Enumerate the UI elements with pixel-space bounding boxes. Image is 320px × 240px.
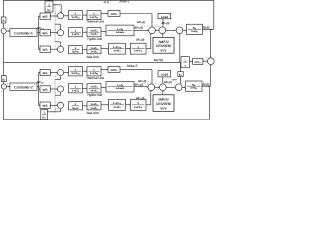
node label dPT2	[138, 79, 146, 83]
wire apf4 to sum	[50, 72, 57, 74]
svg-text:+: +	[55, 46, 56, 48]
svg-text:+: +	[7, 84, 8, 86]
block GRC 1	[108, 10, 120, 16]
block gas fuel 2	[109, 99, 126, 110]
svg-text:ΔPₚ₁(t): ΔPₚ₁(t)	[135, 26, 144, 30]
svg-text:Load: Load	[161, 15, 168, 19]
svg-text:1−sTₚ: 1−sTₚ	[117, 84, 123, 87]
svg-text:apf₁: apf₁	[43, 71, 48, 75]
svg-text:1+sT₁: 1+sT₁	[72, 33, 79, 36]
svg-text:−: −	[166, 26, 167, 28]
block hydro droop compensation 2	[87, 84, 101, 93]
svg-text:1−sT₋ₔ: 1−sT₋ₔ	[113, 46, 121, 49]
wire gas 3-4 b	[126, 104, 131, 106]
svg-text:CES/RFB/: CES/RFB/	[156, 44, 171, 48]
svg-text:1+sTₚ₂: 1+sTₚ₂	[190, 87, 197, 90]
block power system 2	[186, 81, 203, 91]
wire a12 to sum3b	[180, 77, 182, 84]
svg-text:1+sTₓ: 1+sTₓ	[91, 47, 98, 50]
svg-text:Δf₁(t): Δf₁(t)	[104, 1, 110, 4]
summing junction governor hydro 2	[55, 86, 64, 97]
node label df1	[203, 25, 210, 29]
wire df2 to tie circle	[210, 65, 212, 87]
block 2piT12	[193, 58, 203, 64]
wire hydro to penstock 2	[101, 87, 106, 89]
svg-text:apf₂: apf₂	[42, 87, 48, 91]
svg-text:1+sT₂: 1+sT₂	[90, 86, 98, 89]
wire df2 output	[202, 85, 211, 86]
block thermal turbine 1	[87, 11, 101, 20]
svg-text:−: −	[63, 79, 64, 81]
svg-text:1+sTₐ: 1+sTₐ	[114, 50, 121, 53]
block hydro governor 1	[69, 28, 83, 37]
node label df2	[202, 82, 209, 86]
node label Thermal Unit 1	[86, 20, 104, 24]
wire T12 to integrator	[190, 61, 193, 63]
svg-text:−: −	[63, 27, 64, 29]
svg-text:ΔPₜᵉᵉ(t): ΔPₜᵉᵉ(t)	[154, 58, 163, 62]
block Controller-2	[10, 83, 37, 90]
block thermal governor 2	[69, 67, 83, 76]
wire SMES2 to sum2b	[162, 91, 164, 95]
svg-text:+: +	[55, 30, 56, 32]
wire GRC to sum1	[120, 14, 153, 27]
wire gas 1-2	[83, 49, 88, 51]
wire tie into sum3	[179, 34, 181, 62]
svg-text:ΔPₗ₂(t): ΔPₗ₂(t)	[164, 80, 172, 84]
wire df2 to bottom edge	[208, 86, 210, 119]
summing junction governor thermal 1	[55, 11, 64, 19]
wire turbine to GRC	[101, 13, 108, 15]
wire GRC to sum1b	[120, 69, 153, 84]
block thermal turbine 2	[87, 67, 101, 76]
node label dPG2	[136, 96, 144, 100]
summing junction tie 1	[176, 26, 184, 34]
wire gas to sum1	[146, 34, 152, 49]
wire tie circle to T12	[203, 60, 208, 62]
svg-text:1+sT₋₍: 1+sT₋₍	[134, 50, 142, 53]
svg-text:R₂: R₂	[43, 116, 46, 120]
summing junction tie-line	[207, 57, 215, 68]
svg-text:−: −	[64, 11, 65, 13]
svg-text:1+sTₓ: 1+sTₓ	[91, 103, 98, 106]
svg-text:−: −	[166, 83, 167, 85]
wire controller fanout bus	[37, 15, 40, 49]
wire apf5 to sum	[50, 88, 57, 90]
svg-text:+: +	[207, 57, 208, 59]
svg-text:R₁: R₁	[48, 8, 51, 12]
block gas governor 1	[69, 46, 83, 54]
wire tie to a12	[180, 62, 182, 71]
summing junction governor gas 2	[55, 102, 64, 113]
svg-text:apf₁: apf₁	[43, 15, 48, 19]
wire sum2b-sum3b	[166, 87, 175, 89]
svg-text:bs+c: bs+c	[73, 51, 80, 54]
block gas valve 2	[87, 102, 101, 110]
svg-text:−: −	[63, 44, 64, 46]
svg-text:1+sT₃: 1+sT₃	[90, 89, 98, 92]
wire gas 2-3 b	[101, 104, 109, 106]
summing junction ACE2	[1, 84, 8, 93]
svg-text:−: −	[183, 26, 184, 28]
node label Gas Unit 2	[86, 111, 98, 115]
wire droop tap hydro	[55, 24, 61, 29]
block SMES 1	[153, 37, 174, 53]
svg-text:1+sT₂₁: 1+sT₂₁	[71, 16, 79, 19]
summing junction load 1	[158, 26, 167, 34]
summing junction tie 2	[175, 83, 183, 91]
wire df1 to tie circle	[210, 29, 212, 58]
block hydro penstock 2	[106, 81, 134, 92]
block GRC 2	[108, 66, 120, 72]
block apf1	[40, 13, 50, 19]
block 1/R2 droop	[41, 109, 48, 119]
svg-text:Thermal Unit: Thermal Unit	[86, 20, 104, 24]
svg-text:Controller-1: Controller-1	[14, 31, 33, 35]
svg-text:+: +	[148, 26, 149, 28]
summing junction ACE1	[1, 28, 8, 37]
summing junction governor gas 1	[55, 44, 64, 52]
wire thermal gov-turbine	[83, 14, 88, 16]
svg-text:Δf₁(t): Δf₁(t)	[203, 25, 210, 29]
block Controller-1	[10, 29, 37, 37]
svg-text:Thermal Unit: Thermal Unit	[86, 76, 104, 80]
svg-text:1+sTₐ: 1+sTₐ	[91, 51, 98, 54]
summing junction load 2	[159, 83, 167, 91]
svg-text:Hydro Unit: Hydro Unit	[87, 93, 102, 97]
wire ACE1 to controller	[6, 30, 10, 32]
block a12	[178, 72, 183, 77]
wire droop R1 output	[53, 4, 62, 12]
node label Thermal Unit 2	[86, 76, 104, 80]
summing junction output 2	[147, 83, 156, 91]
svg-text:apf₃: apf₃	[42, 48, 48, 52]
block apf3	[40, 46, 50, 52]
node label dPc2	[37, 80, 45, 85]
wire penstock to sum1	[134, 30, 149, 32]
block gas valve 1	[87, 46, 101, 54]
svg-text:1+sT₃: 1+sT₃	[90, 33, 98, 36]
wire sum2-sum3	[166, 30, 176, 32]
svg-text:−: −	[182, 83, 183, 85]
wire turbine to GRC 2	[101, 69, 108, 71]
svg-text:ΔPₜᵉᵉ: ΔPₜᵉᵉ	[172, 79, 177, 82]
wire droop distribution vertical 2	[54, 79, 56, 112]
svg-text:ΔP₏₂(t): ΔP₏₂(t)	[136, 96, 144, 100]
svg-text:EVs: EVs	[160, 49, 166, 53]
block tie integrator 1/s	[181, 57, 190, 68]
node top labels	[104, 0, 130, 4]
svg-text:2πT₁₂: 2πT₁₂	[194, 61, 201, 64]
wire load2 to sum2b	[162, 77, 164, 84]
wire apf2 to sum	[50, 32, 57, 34]
svg-text:Area-2: Area-2	[127, 64, 138, 68]
svg-text:−: −	[63, 111, 64, 113]
svg-text:ΔPₗ₁(t): ΔPₗ₁(t)	[162, 21, 170, 25]
svg-text:+: +	[55, 76, 56, 78]
node label Area-2	[127, 64, 138, 68]
svg-text:Kₚ₁: Kₚ₁	[193, 27, 197, 30]
wire hydro gov-droop	[83, 31, 88, 33]
block apf2	[40, 30, 50, 36]
wire gas to sum1b	[146, 91, 152, 105]
wire dPtie line	[3, 62, 181, 63]
svg-text:CES/RFB/: CES/RFB/	[156, 102, 171, 106]
svg-text:Load: Load	[161, 73, 168, 77]
svg-text:B₂: B₂	[2, 78, 5, 81]
node label Hydro Unit 1	[87, 37, 102, 41]
svg-text:1+sT₋₍: 1+sT₋₍	[134, 106, 142, 109]
wire bottom edge (&Delta;f2 feedback)	[3, 119, 209, 120]
svg-text:ΔP₏₁(t): ΔP₏₁(t)	[136, 38, 144, 42]
svg-text:a₁₂: a₁₂	[179, 74, 182, 77]
wire apf1 to sum	[50, 15, 57, 17]
summing junction output 1	[148, 26, 157, 34]
svg-text:1+0.5sTₚ: 1+0.5sTₚ	[116, 31, 125, 34]
wire controller-2 fanout bus	[37, 72, 40, 106]
wire apf6 to sum	[50, 105, 57, 107]
summing junction governor thermal 2	[55, 69, 64, 80]
node label dPL1	[162, 21, 170, 25]
svg-text:1+sT₂₂: 1+sT₂₂	[71, 72, 80, 75]
svg-text:+: +	[155, 83, 156, 85]
svg-text:1+sTₜ₂: 1+sTₜ₂	[90, 72, 99, 75]
svg-text:+: +	[55, 13, 56, 15]
wire droop tap thermal 2	[55, 76, 61, 79]
wire droop distribution vertical	[54, 5, 56, 42]
block 1/R1 droop	[45, 0, 53, 12]
svg-text:+: +	[55, 93, 56, 95]
svg-text:1+sTₚ₁: 1+sTₚ₁	[191, 30, 198, 33]
wire sum3b to power system 2	[182, 87, 185, 89]
svg-text:Hydro Unit: Hydro Unit	[87, 37, 102, 41]
node label Hydro Unit 2	[87, 93, 102, 97]
node label dPtie	[154, 58, 163, 62]
wire left edge bus	[2, 0, 4, 119]
svg-text:apf₂: apf₂	[42, 31, 48, 35]
block Load 2	[158, 71, 171, 77]
svg-text:GRC: GRC	[111, 12, 119, 16]
node label dPH1	[135, 26, 144, 30]
block SMES 2	[153, 95, 174, 112]
block apf5	[40, 86, 50, 92]
wire to thermal governor 2	[64, 72, 69, 74]
block hydro droop compensation 1	[87, 28, 101, 37]
svg-text:1+0.5sTₚ: 1+0.5sTₚ	[116, 87, 125, 90]
wire top edge (&Delta;f1 feedback)	[3, 0, 214, 2]
svg-text:−: −	[207, 66, 208, 68]
svg-text:+: +	[55, 109, 56, 111]
svg-text:+: +	[1, 36, 2, 38]
wire df1 output	[203, 0, 214, 30]
svg-text:1−sTₚ: 1−sTₚ	[117, 28, 123, 31]
svg-text:+: +	[147, 83, 148, 85]
wire thermal gov-turbine 2	[83, 70, 88, 72]
block B2	[1, 76, 6, 82]
wire gas 1-2 b	[83, 105, 88, 107]
wire sum1-sum2	[155, 30, 159, 32]
wire droop R2 output	[48, 109, 62, 112]
block hydro penstock 1	[106, 25, 134, 36]
wire gas 3-4	[126, 48, 131, 50]
block gas compressor 1	[130, 43, 146, 54]
node label dPc1	[37, 26, 45, 31]
svg-text:ΔPₚ₂(t): ΔPₚ₂(t)	[135, 82, 144, 86]
svg-text:1−sT₋ₔ: 1−sT₋ₔ	[113, 102, 121, 105]
svg-text:B₁: B₁	[2, 20, 5, 23]
svg-text:apf₃: apf₃	[42, 104, 48, 108]
wire penstock to sum1b	[134, 86, 148, 88]
svg-text:EVs: EVs	[160, 106, 166, 110]
node label dPL2	[164, 80, 172, 84]
svg-text:SMES/: SMES/	[158, 97, 168, 101]
wire SMES1 to sum2	[162, 34, 164, 37]
summing junction governor hydro 1	[55, 27, 64, 35]
wire sum3 to power system 1	[183, 30, 187, 32]
wire apf3 to sum	[50, 48, 57, 50]
svg-text:1+sTₜ₁: 1+sTₜ₁	[90, 16, 98, 19]
block apf6	[40, 102, 50, 108]
wire gas 2-3	[101, 48, 109, 50]
svg-text:ΔPₜ₁(t): ΔPₜ₁(t)	[137, 20, 145, 24]
block gas fuel 1	[109, 43, 126, 54]
block thermal governor 1	[69, 11, 83, 20]
svg-text:+: +	[155, 26, 156, 28]
svg-text:Gas Unit: Gas Unit	[86, 111, 98, 115]
wire droop tap gas	[55, 42, 61, 46]
svg-text:1+sT₂: 1+sT₂	[90, 30, 98, 33]
node label dPH2	[135, 82, 144, 86]
wire to thermal governor	[64, 15, 69, 17]
block gas compressor 2	[130, 99, 146, 110]
wire sum1b-sum2b	[155, 87, 160, 89]
svg-text:bs+c: bs+c	[73, 107, 80, 110]
node label Gas Unit 1	[86, 55, 98, 59]
wire load1 to sum2	[162, 19, 164, 27]
block Load 1	[158, 13, 171, 18]
svg-text:Area-1: Area-1	[119, 0, 129, 4]
svg-text:GRC: GRC	[111, 68, 119, 72]
svg-text:+: +	[1, 91, 2, 93]
svg-text:1+sTₐ: 1+sTₐ	[91, 107, 98, 110]
wire hydro to penstock	[101, 31, 106, 33]
block power system 1	[187, 24, 203, 34]
svg-text:1+sTₐ: 1+sTₐ	[114, 106, 121, 109]
svg-text:+: +	[158, 26, 159, 28]
block B1	[1, 17, 6, 23]
svg-text:1+sT₁: 1+sT₁	[72, 89, 79, 92]
block gas governor 2	[69, 102, 83, 110]
node label a12 dPtie	[172, 79, 177, 82]
svg-text:SMES/: SMES/	[158, 40, 168, 44]
node label dPG1	[136, 38, 144, 42]
block hydro governor 2	[69, 84, 83, 93]
wire ACE2 to controller	[6, 86, 9, 88]
wire hydro gov-droop 2	[83, 88, 88, 90]
wire droop tap hydro 2	[55, 93, 61, 96]
svg-text:+: +	[7, 28, 8, 30]
svg-text:−: −	[63, 95, 64, 97]
svg-text:Controller-2: Controller-2	[14, 85, 33, 89]
node label dPT1	[137, 20, 145, 24]
block apf4	[40, 69, 50, 75]
svg-text:Kₚ₂: Kₚ₂	[192, 83, 196, 86]
svg-text:Gas Unit: Gas Unit	[86, 55, 98, 59]
